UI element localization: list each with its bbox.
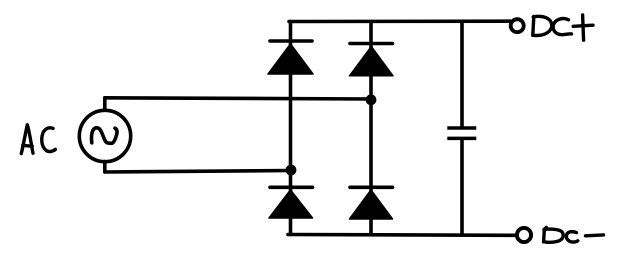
label DC+: [533, 15, 593, 40]
diode D2 (upper right): [350, 44, 394, 76]
wire top rail: [289, 19, 511, 23]
node A junction dot: [366, 94, 377, 105]
capacitor C1: [447, 128, 476, 138]
label DC-: [544, 227, 604, 242]
wire left bridge branch: [289, 22, 293, 235]
wire bottom rail: [288, 233, 515, 237]
wire right bridge branch: [369, 22, 373, 235]
wire capacitor branch top: [460, 21, 464, 126]
terminal DC+: [511, 19, 524, 32]
wire AC to node B: [105, 171, 291, 173]
AC source V1: [79, 110, 130, 161]
wire AC to node A: [105, 98, 371, 99]
wire AC top lead: [103, 98, 107, 109]
node B junction dot: [286, 165, 297, 176]
diode D4 (lower right): [350, 187, 393, 219]
diode D1 (upper left): [268, 41, 313, 74]
wire AC bottom lead: [103, 162, 107, 173]
wire capacitor branch bottom: [460, 140, 464, 235]
label AC: [21, 125, 55, 154]
diode D3 (lower left): [269, 187, 313, 218]
terminal DC-: [517, 228, 531, 242]
